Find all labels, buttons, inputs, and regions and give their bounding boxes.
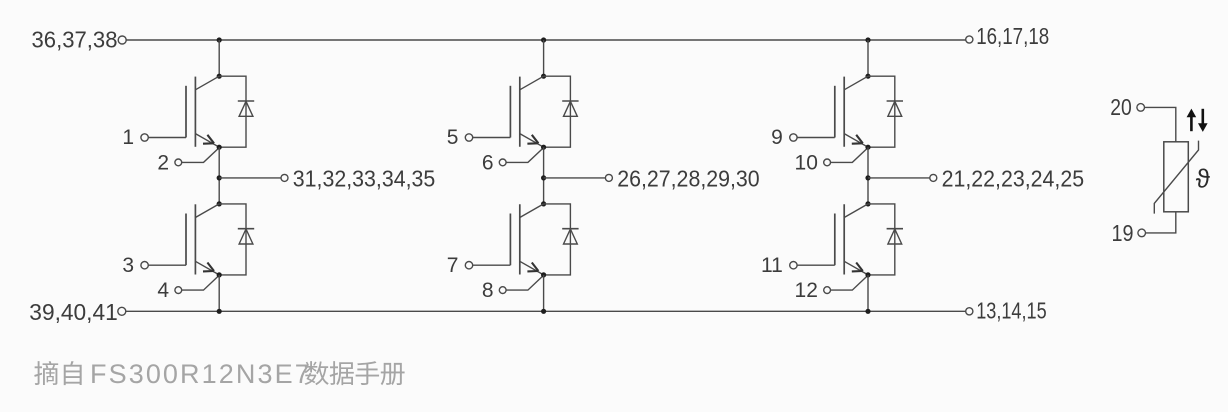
wire collector to diode D2 cathode — [219, 204, 246, 275]
wire gate lead pin 9 — [797, 137, 835, 139]
terminal 39,40,41 — [118, 307, 126, 315]
bidirectional arrows temperature — [1187, 109, 1208, 132]
wire top rail to Q1 collector — [218, 40, 220, 76]
svg-text:5: 5 — [447, 126, 459, 149]
svg-text:3: 3 — [122, 254, 134, 277]
pin 12 terminal — [824, 287, 831, 294]
svg-text:20: 20 — [1110, 94, 1132, 120]
svg-text:2: 2 — [157, 151, 169, 174]
wire auxiliary emitter pin 8 — [506, 275, 543, 290]
junction phase node leg 3 — [865, 175, 870, 180]
pin 1 terminal — [141, 134, 148, 141]
wire DC- bottom rail — [126, 310, 966, 312]
pin 20 terminal — [1137, 104, 1145, 112]
svg-text:16,17,18: 16,17,18 — [976, 23, 1049, 49]
svg-text:10: 10 — [795, 151, 818, 174]
terminal 36,37,38 — [118, 36, 126, 44]
svg-text:31,32,33,34,35: 31,32,33,34,35 — [293, 166, 436, 192]
svg-text:36,37,38: 36,37,38 — [32, 27, 118, 53]
wire phase column leg 2 — [543, 147, 545, 204]
wire gate lead pin 7 — [473, 264, 511, 266]
diode D6 — [887, 229, 903, 244]
diode D1 — [238, 101, 254, 116]
pin 9 terminal — [790, 134, 797, 141]
diode D2 — [238, 229, 254, 244]
svg-text:39,40,41: 39,40,41 — [29, 299, 118, 325]
svg-text:FS300R12N3E7: FS300R12N3E7 — [90, 359, 312, 389]
wire top rail to Q3 collector — [543, 40, 545, 76]
wire auxiliary emitter pin 12 — [831, 275, 868, 290]
wire gate lead pin 3 — [148, 264, 186, 266]
transistor Q6 (IGBT) — [835, 204, 868, 275]
svg-text:6: 6 — [482, 151, 494, 174]
wire AC output leg 2 — [544, 177, 606, 179]
node Q6 emitter — [865, 272, 870, 277]
pin 2 terminal — [175, 159, 182, 166]
svg-text:7: 7 — [447, 254, 459, 277]
pin 6 terminal — [499, 159, 506, 166]
junction phase node leg 1 — [217, 175, 222, 180]
node Q4 collector — [541, 201, 546, 206]
svg-text:ϑ: ϑ — [1196, 164, 1211, 194]
pin 4 terminal — [175, 287, 182, 294]
svg-text:9: 9 — [771, 126, 783, 149]
wire collector to diode D3 cathode — [544, 76, 571, 147]
transistor Q5 (IGBT) — [835, 76, 868, 147]
junction top rail leg 3 — [865, 37, 870, 42]
wire phase column leg 1 — [218, 147, 220, 204]
transistor Q2 (IGBT) — [186, 204, 219, 275]
wire collector to diode D1 cathode — [219, 76, 246, 147]
wire DC+ top rail — [126, 39, 965, 41]
node Q1 collector — [217, 74, 222, 79]
junction bottom rail leg 1 — [217, 309, 222, 314]
node Q5 collector — [865, 74, 870, 79]
transistor Q1 (IGBT) — [186, 76, 219, 147]
pin 7 terminal — [465, 262, 472, 269]
node Q4 emitter — [541, 272, 546, 277]
wire auxiliary emitter pin 2 — [182, 148, 219, 163]
svg-text:26,27,28,29,30: 26,27,28,29,30 — [617, 166, 760, 192]
terminal 31,32,33,34,35 — [281, 174, 288, 181]
wire collector to diode D4 cathode — [544, 204, 571, 275]
pin 8 terminal — [499, 287, 506, 294]
thermistor R1 (NTC) — [1154, 141, 1198, 214]
wire Q4 emitter to bottom rail — [543, 275, 545, 311]
node Q1 emitter — [217, 145, 222, 150]
wire top rail to Q5 collector — [867, 40, 869, 76]
wire gate lead pin 1 — [148, 137, 186, 139]
node Q3 collector — [541, 74, 546, 79]
terminal 13,14,15 — [966, 308, 973, 315]
wire Q2 emitter to bottom rail — [218, 275, 220, 311]
svg-text:8: 8 — [482, 279, 494, 302]
svg-text:13,14,15: 13,14,15 — [976, 297, 1046, 323]
node Q3 emitter — [541, 145, 546, 150]
wire gate lead pin 11 — [797, 264, 835, 266]
svg-text:11: 11 — [761, 254, 783, 277]
wire thermistor R1 to pin 19 — [1146, 212, 1176, 233]
diode D5 — [887, 101, 903, 116]
node Q6 collector — [865, 201, 870, 206]
diode D4 — [562, 229, 578, 244]
junction top rail leg 2 — [541, 37, 546, 42]
node Q2 emitter — [217, 272, 222, 277]
junction bottom rail leg 2 — [541, 309, 546, 314]
pin 19 terminal — [1138, 229, 1146, 237]
wire pin 20 to thermistor R1 — [1145, 107, 1176, 141]
svg-text:19: 19 — [1112, 220, 1134, 246]
wire auxiliary emitter pin 10 — [831, 148, 868, 163]
wire auxiliary emitter pin 4 — [182, 275, 219, 290]
wire phase column leg 3 — [867, 147, 869, 204]
wire AC output leg 1 — [219, 177, 281, 179]
svg-text:21,22,23,24,25: 21,22,23,24,25 — [942, 166, 1085, 192]
svg-text:12: 12 — [795, 279, 818, 302]
pin 11 terminal — [790, 262, 797, 269]
wire gate lead pin 5 — [473, 137, 511, 139]
terminal 26,27,28,29,30 — [605, 174, 612, 181]
junction top rail leg 1 — [217, 37, 222, 42]
diode D3 — [562, 101, 578, 116]
junction phase node leg 2 — [541, 175, 546, 180]
junction bottom rail leg 3 — [865, 309, 870, 314]
wire AC output leg 3 — [868, 177, 930, 179]
wire collector to diode D5 cathode — [868, 76, 895, 147]
terminal 16,17,18 — [966, 36, 973, 43]
pin 10 terminal — [824, 159, 831, 166]
wire Q6 emitter to bottom rail — [867, 275, 869, 311]
wire auxiliary emitter pin 6 — [506, 148, 543, 163]
svg-text:1: 1 — [122, 126, 134, 149]
transistor Q4 (IGBT) — [510, 204, 543, 275]
svg-text:4: 4 — [157, 279, 169, 302]
node Q2 collector — [217, 201, 222, 206]
wire collector to diode D6 cathode — [868, 204, 895, 275]
pin 5 terminal — [465, 134, 472, 141]
node Q5 emitter — [865, 145, 870, 150]
caption: source note 摘自FS300R12N3E7数据手册 — [34, 359, 404, 389]
transistor Q3 (IGBT) — [510, 76, 543, 147]
pin 3 terminal — [141, 262, 148, 269]
terminal 21,22,23,24,25 — [930, 174, 937, 181]
